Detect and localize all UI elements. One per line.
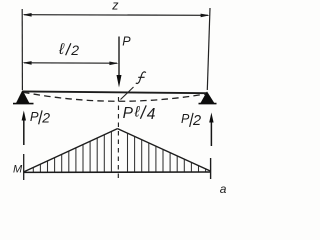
moment diagram axis [23, 154, 25, 180]
svg-text:a: a [220, 182, 227, 196]
moment diagram outline [24, 129, 211, 173]
label l/2 [58, 41, 79, 58]
svg-text:P: P [122, 34, 131, 48]
svg-text:2: 2 [41, 110, 50, 126]
deflection curve (dashed) [23, 92, 207, 101]
reaction arrow P/2 left [22, 111, 26, 146]
svg-text:M: M [13, 164, 23, 176]
svg-text:P: P [181, 112, 190, 126]
left support [13, 91, 34, 104]
label P l/4 [123, 104, 156, 123]
svg-text:P: P [30, 109, 39, 124]
right support [199, 92, 217, 104]
right extension line [207, 8, 210, 90]
svg-text:z: z [111, 0, 119, 12]
left extension line [21, 9, 23, 90]
right end ordinate bar [210, 158, 212, 179]
svg-text:2: 2 [192, 113, 201, 129]
reaction arrow P/2 right [209, 113, 213, 147]
svg-text:2: 2 [70, 42, 79, 58]
dashed centerline [117, 97, 119, 179]
force arrow P [117, 37, 122, 88]
dimension line z (full span) [22, 13, 209, 17]
label P/2 left [30, 109, 50, 126]
dimension line l/2 (half span) [22, 61, 118, 65]
svg-text:ℓ: ℓ [58, 41, 65, 58]
svg-text:P: P [123, 105, 134, 122]
svg-text:4: 4 [147, 106, 156, 123]
beam [23, 91, 208, 93]
label f [136, 72, 146, 84]
moment diagram hatching [33, 131, 205, 172]
label P/2 right [181, 112, 201, 129]
leader line to f [121, 87, 134, 100]
